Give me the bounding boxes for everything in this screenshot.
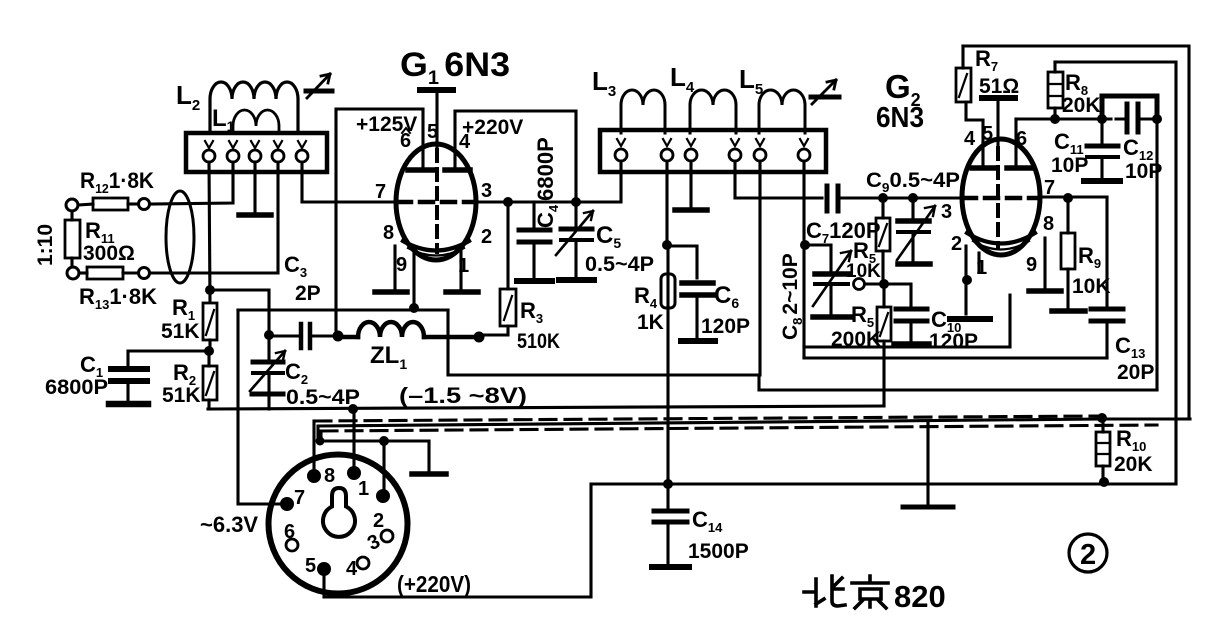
node junction C5 +220V	[571, 197, 581, 207]
svg-text:1K: 1K	[637, 311, 664, 334]
ground R9	[1052, 308, 1085, 314]
node tank1 terminal 5	[296, 141, 308, 162]
wire grid bias line -1.5~8V	[208, 406, 884, 409]
inductor L1	[233, 110, 279, 133]
ground C10	[894, 341, 929, 347]
svg-text:5: 5	[982, 123, 993, 145]
inductor ZL1	[338, 322, 479, 337]
svg-text:820: 820	[894, 579, 946, 614]
svg-text:6800P: 6800P	[45, 376, 108, 399]
node R12 output circle	[139, 199, 150, 210]
ground bus right	[903, 505, 953, 510]
svg-text:0.5~4P: 0.5~4P	[585, 253, 654, 276]
wire tank2 terminal6 down to bypass line	[802, 161, 805, 358]
tube G2 plate left	[972, 165, 995, 171]
wire tank1 terminal5 to G1 grid pin7	[302, 162, 396, 202]
ground C11	[1084, 178, 1120, 184]
svg-text:2P: 2P	[295, 282, 321, 305]
wire common cathode line	[448, 310, 1157, 390]
svg-text:3: 3	[481, 180, 492, 202]
wire G2 pin6 lead	[1014, 119, 1017, 166]
ground C14	[652, 564, 689, 570]
svg-text:10K: 10K	[846, 261, 881, 282]
tube G1 grid dashes	[398, 200, 474, 205]
balun transformer oval	[166, 191, 194, 283]
trimmer core arrow L2	[306, 74, 332, 98]
tube G2 top cap	[982, 98, 1015, 148]
node junction R10 bottom	[1099, 477, 1109, 487]
tube G1 cathode arcs	[403, 241, 469, 251]
node tank1 terminal 3	[249, 141, 261, 162]
svg-text:6N3: 6N3	[876, 102, 924, 134]
svg-text:6: 6	[284, 521, 295, 543]
node junction ZL1 left	[333, 331, 344, 342]
node junction C9	[908, 193, 918, 203]
capacitor C2 trimmer	[250, 335, 285, 409]
tube G1 envelope	[396, 144, 476, 260]
wire heater 6.3V line	[238, 308, 448, 311]
resistor R9	[1061, 198, 1075, 308]
shield box input tank	[186, 133, 327, 172]
svg-text:3: 3	[941, 201, 952, 223]
svg-text:510K: 510K	[517, 330, 560, 353]
wire R13 to tank1 terminal4	[150, 162, 278, 273]
node tank2 terminal 6	[798, 139, 810, 161]
tube G2 cathode arcs	[967, 233, 1035, 244]
node socket pin1	[347, 466, 361, 480]
svg-text:4: 4	[964, 128, 976, 150]
node socket pin3	[381, 530, 393, 542]
resistor R3	[480, 202, 516, 335]
svg-text:120P: 120P	[701, 315, 750, 338]
wire top rail 2	[1055, 62, 1176, 481]
ground G1 pin9	[375, 289, 407, 295]
svg-text:120P: 120P	[929, 330, 978, 353]
wire G2 pin2 pin1 leads	[966, 246, 979, 314]
wire bus solid line B	[318, 419, 1190, 440]
svg-text:C46800P: C46800P	[533, 137, 561, 228]
svg-text:0.5~4P: 0.5~4P	[286, 386, 360, 409]
node antenna input terminal top	[66, 199, 78, 211]
wire tank2 terminal2 down	[665, 161, 668, 245]
node junction pin1 pin2	[962, 275, 972, 285]
svg-text:51Ω: 51Ω	[979, 75, 1019, 98]
wire oscillator module enclosure	[804, 295, 1010, 347]
svg-text:R121·8K: R121·8K	[80, 168, 154, 196]
capacitor C3	[269, 324, 338, 348]
wire +220V line	[324, 484, 1176, 597]
svg-text:51K: 51K	[161, 320, 200, 343]
tube G1 plate right	[445, 167, 470, 173]
svg-text:1:10: 1:10	[34, 224, 57, 266]
wire junction down to C14	[666, 245, 669, 484]
svg-text:9: 9	[1026, 254, 1037, 276]
wire R12 to tank1 terminal2	[150, 162, 233, 204]
wire socket pin2 ground line	[318, 441, 429, 471]
capacitor C5 trimmer	[556, 202, 593, 277]
node socket pin6	[286, 539, 298, 551]
capacitor C4	[519, 202, 550, 277]
svg-text:5: 5	[427, 121, 438, 143]
svg-text:C90.5~4P: C90.5~4P	[866, 169, 960, 195]
wire G1 pin9	[393, 246, 396, 290]
node junction R3	[503, 197, 513, 207]
tube G2 grid dashes	[963, 196, 1039, 201]
node tank2 terminal 2	[661, 139, 673, 161]
node tank2 terminal 1	[615, 139, 627, 161]
node junction socket pin1 line	[348, 404, 358, 414]
wire stub dashed C to pin2 line	[319, 431, 322, 441]
node junction ZL1 right R3	[474, 332, 485, 343]
node tank2 terminal 4	[729, 139, 741, 161]
tube socket keyhole	[323, 488, 355, 537]
node socket pin8	[307, 469, 321, 483]
wire tank2 terminal5 down to cathode line	[758, 161, 761, 375]
node tank2 terminal 3	[685, 139, 697, 161]
svg-text:(+220V): (+220V)	[397, 571, 471, 597]
wire thick bracket over C12	[1102, 96, 1157, 119]
svg-text:2: 2	[373, 510, 384, 532]
potentiometer R5 10K	[876, 198, 890, 283]
wire G1 heater bottom lead	[412, 254, 415, 308]
node junction C2 C3	[264, 330, 274, 340]
ground bus left	[412, 471, 446, 477]
wire bus dashed line C	[321, 425, 1157, 431]
ground C1	[109, 401, 148, 408]
svg-text:7: 7	[375, 181, 386, 203]
capacitor C11	[1087, 119, 1118, 177]
node junction R5 wiper C10	[879, 279, 889, 289]
node junction R1 top	[205, 285, 215, 295]
node junction C14 top	[663, 479, 673, 489]
resistor R11	[65, 211, 80, 267]
shield box tank2	[600, 130, 826, 172]
wire +220V feed	[455, 111, 576, 202]
resistor R10	[1096, 418, 1110, 481]
wire socket pin2 up	[382, 441, 385, 491]
tube G2 internal shield dashed	[996, 148, 1000, 248]
svg-text:+220V: +220V	[462, 116, 523, 139]
svg-text:300Ω: 300Ω	[83, 242, 135, 265]
ground C5	[559, 277, 594, 283]
ground C8	[813, 314, 850, 320]
node R5 wiper terminal	[854, 279, 865, 290]
wire tank2 terminal3 down	[689, 161, 692, 208]
svg-text:~6.3V: ~6.3V	[200, 512, 258, 537]
resistor R4	[661, 274, 675, 308]
wire R1 junction to C3	[210, 290, 269, 335]
inductor L4	[690, 90, 736, 133]
svg-text:R131·8K: R131·8K	[79, 284, 157, 312]
svg-text:4: 4	[346, 558, 358, 580]
node tank2 terminal 5	[754, 139, 766, 161]
wire G2 pin9 lead	[1043, 238, 1046, 288]
svg-text:10K: 10K	[1072, 275, 1111, 298]
node junction C11 top	[1097, 114, 1107, 124]
wire tank1 terminal1 down to R1	[209, 162, 210, 302]
node junction pin2	[379, 436, 389, 446]
svg-text:G16N3: G16N3	[400, 46, 510, 89]
wire top rail 1	[963, 46, 1189, 418]
capacitor C7	[827, 186, 962, 211]
wire +125V feed	[336, 109, 423, 336]
wire tank1 terminal3 down	[253, 162, 256, 212]
svg-text:20K: 20K	[1114, 453, 1153, 476]
resistor R2	[203, 351, 217, 409]
svg-text:5: 5	[305, 555, 316, 577]
svg-text:7: 7	[294, 487, 305, 509]
node junction R1 R2 C1	[204, 346, 214, 356]
svg-text:4: 4	[459, 131, 471, 153]
wire dashed link to C12	[1104, 117, 1124, 120]
ground G2 cathode1	[950, 316, 990, 322]
svg-text:2: 2	[481, 226, 492, 248]
resistor R5 200K	[877, 284, 891, 406]
svg-text:9: 9	[396, 254, 407, 276]
inductor L3	[621, 90, 665, 133]
capacitor C6	[667, 246, 713, 338]
node junction bus stub	[316, 437, 325, 446]
wire G1 pin1	[459, 247, 462, 290]
node socket pin7	[280, 497, 294, 511]
resistor R8	[1048, 62, 1063, 119]
svg-text:C82~10P: C82~10P	[779, 253, 805, 340]
ground G2 pin9	[1029, 288, 1061, 294]
resistor R12	[78, 198, 138, 210]
svg-text:1500P: 1500P	[688, 540, 749, 563]
svg-text:8: 8	[324, 465, 335, 487]
capacitor C13	[1091, 197, 1123, 358]
svg-text:(–1.5 ~8V): (–1.5 ~8V)	[399, 383, 527, 408]
capacitor C1	[111, 351, 209, 400]
resistor R7	[956, 46, 971, 102]
node junction G1 heater	[409, 303, 419, 313]
tube G1 internal shield dashed	[435, 150, 439, 252]
svg-text:20K: 20K	[1062, 94, 1101, 117]
svg-text:C7120P: C7120P	[806, 218, 881, 246]
svg-text:20P: 20P	[1117, 361, 1154, 384]
trimmer core arrow tank2	[811, 80, 839, 104]
capacitor C12	[1127, 104, 1157, 132]
tube socket outline	[269, 455, 408, 594]
capacitor C9 trimmer	[897, 198, 935, 261]
ground G1 pin1	[446, 289, 478, 295]
tube G1 plate left	[408, 167, 433, 173]
svg-text:1: 1	[358, 478, 369, 500]
node socket pin2	[376, 489, 390, 503]
node junction C8 branch	[800, 240, 810, 250]
wire socket pin8 up to AGC line	[312, 421, 315, 476]
node junction R8 bottom	[1050, 114, 1060, 124]
tube G2 plate right	[1007, 165, 1031, 171]
wire G2 pin4 lead	[966, 102, 983, 164]
node tank1 terminal 2	[227, 141, 239, 162]
ground tank2 center tap	[675, 207, 707, 213]
wire heater drop to socket pin7	[238, 310, 281, 504]
wire wiper to junction	[865, 282, 883, 285]
ground tank1 center tap	[239, 212, 271, 218]
node junction R9	[1063, 193, 1073, 203]
ground C4	[517, 278, 552, 284]
svg-text:2: 2	[951, 233, 962, 255]
ground C6	[681, 338, 715, 344]
resistor R13	[79, 267, 138, 279]
wire feedback right vertical	[1155, 119, 1158, 390]
node tank1 terminal 4	[272, 141, 284, 162]
node antenna input terminal bottom	[67, 267, 79, 279]
node socket pin4	[357, 557, 369, 569]
node R13 output circle	[139, 268, 150, 279]
wire socket pin1 up to bias line	[352, 409, 355, 473]
wire G2 pin7 line	[1040, 195, 1107, 198]
svg-text:10P: 10P	[1051, 154, 1088, 177]
wire screen feed line	[1016, 117, 1102, 120]
wire AGC dashed line A	[315, 416, 1100, 421]
svg-text:51K: 51K	[162, 384, 201, 407]
svg-text:8: 8	[383, 222, 394, 244]
resistor R1	[203, 303, 217, 351]
wire G1 plate pin3 to tank2	[476, 161, 621, 202]
tube G2 envelope	[962, 139, 1040, 255]
wire bypass line C8 to C13	[804, 356, 1107, 359]
label Beijing 820	[804, 576, 888, 608]
node junction R10 top	[1097, 413, 1107, 423]
capacitor C14	[654, 484, 687, 564]
svg-text:8: 8	[1043, 213, 1054, 235]
wire bus ground stub right	[926, 423, 929, 504]
capacitor C10	[884, 284, 927, 341]
svg-text:2: 2	[1080, 539, 1096, 571]
tube G1 top cap	[420, 90, 453, 150]
node junction R4 C6 C14	[662, 240, 672, 250]
inductor L5	[759, 90, 805, 133]
svg-text:6: 6	[1016, 128, 1027, 150]
label circled 2	[1069, 534, 1107, 572]
node junction C12 right	[1152, 114, 1162, 124]
node socket pin5	[317, 562, 331, 576]
capacitor C8 trimmer	[805, 245, 851, 313]
ground C9	[898, 261, 930, 267]
node tank1 terminal 1	[203, 141, 215, 162]
wire tank2 terminal4 to C7	[735, 161, 822, 198]
inductor L2	[210, 82, 298, 133]
node junction grid G2 R5	[878, 193, 888, 203]
